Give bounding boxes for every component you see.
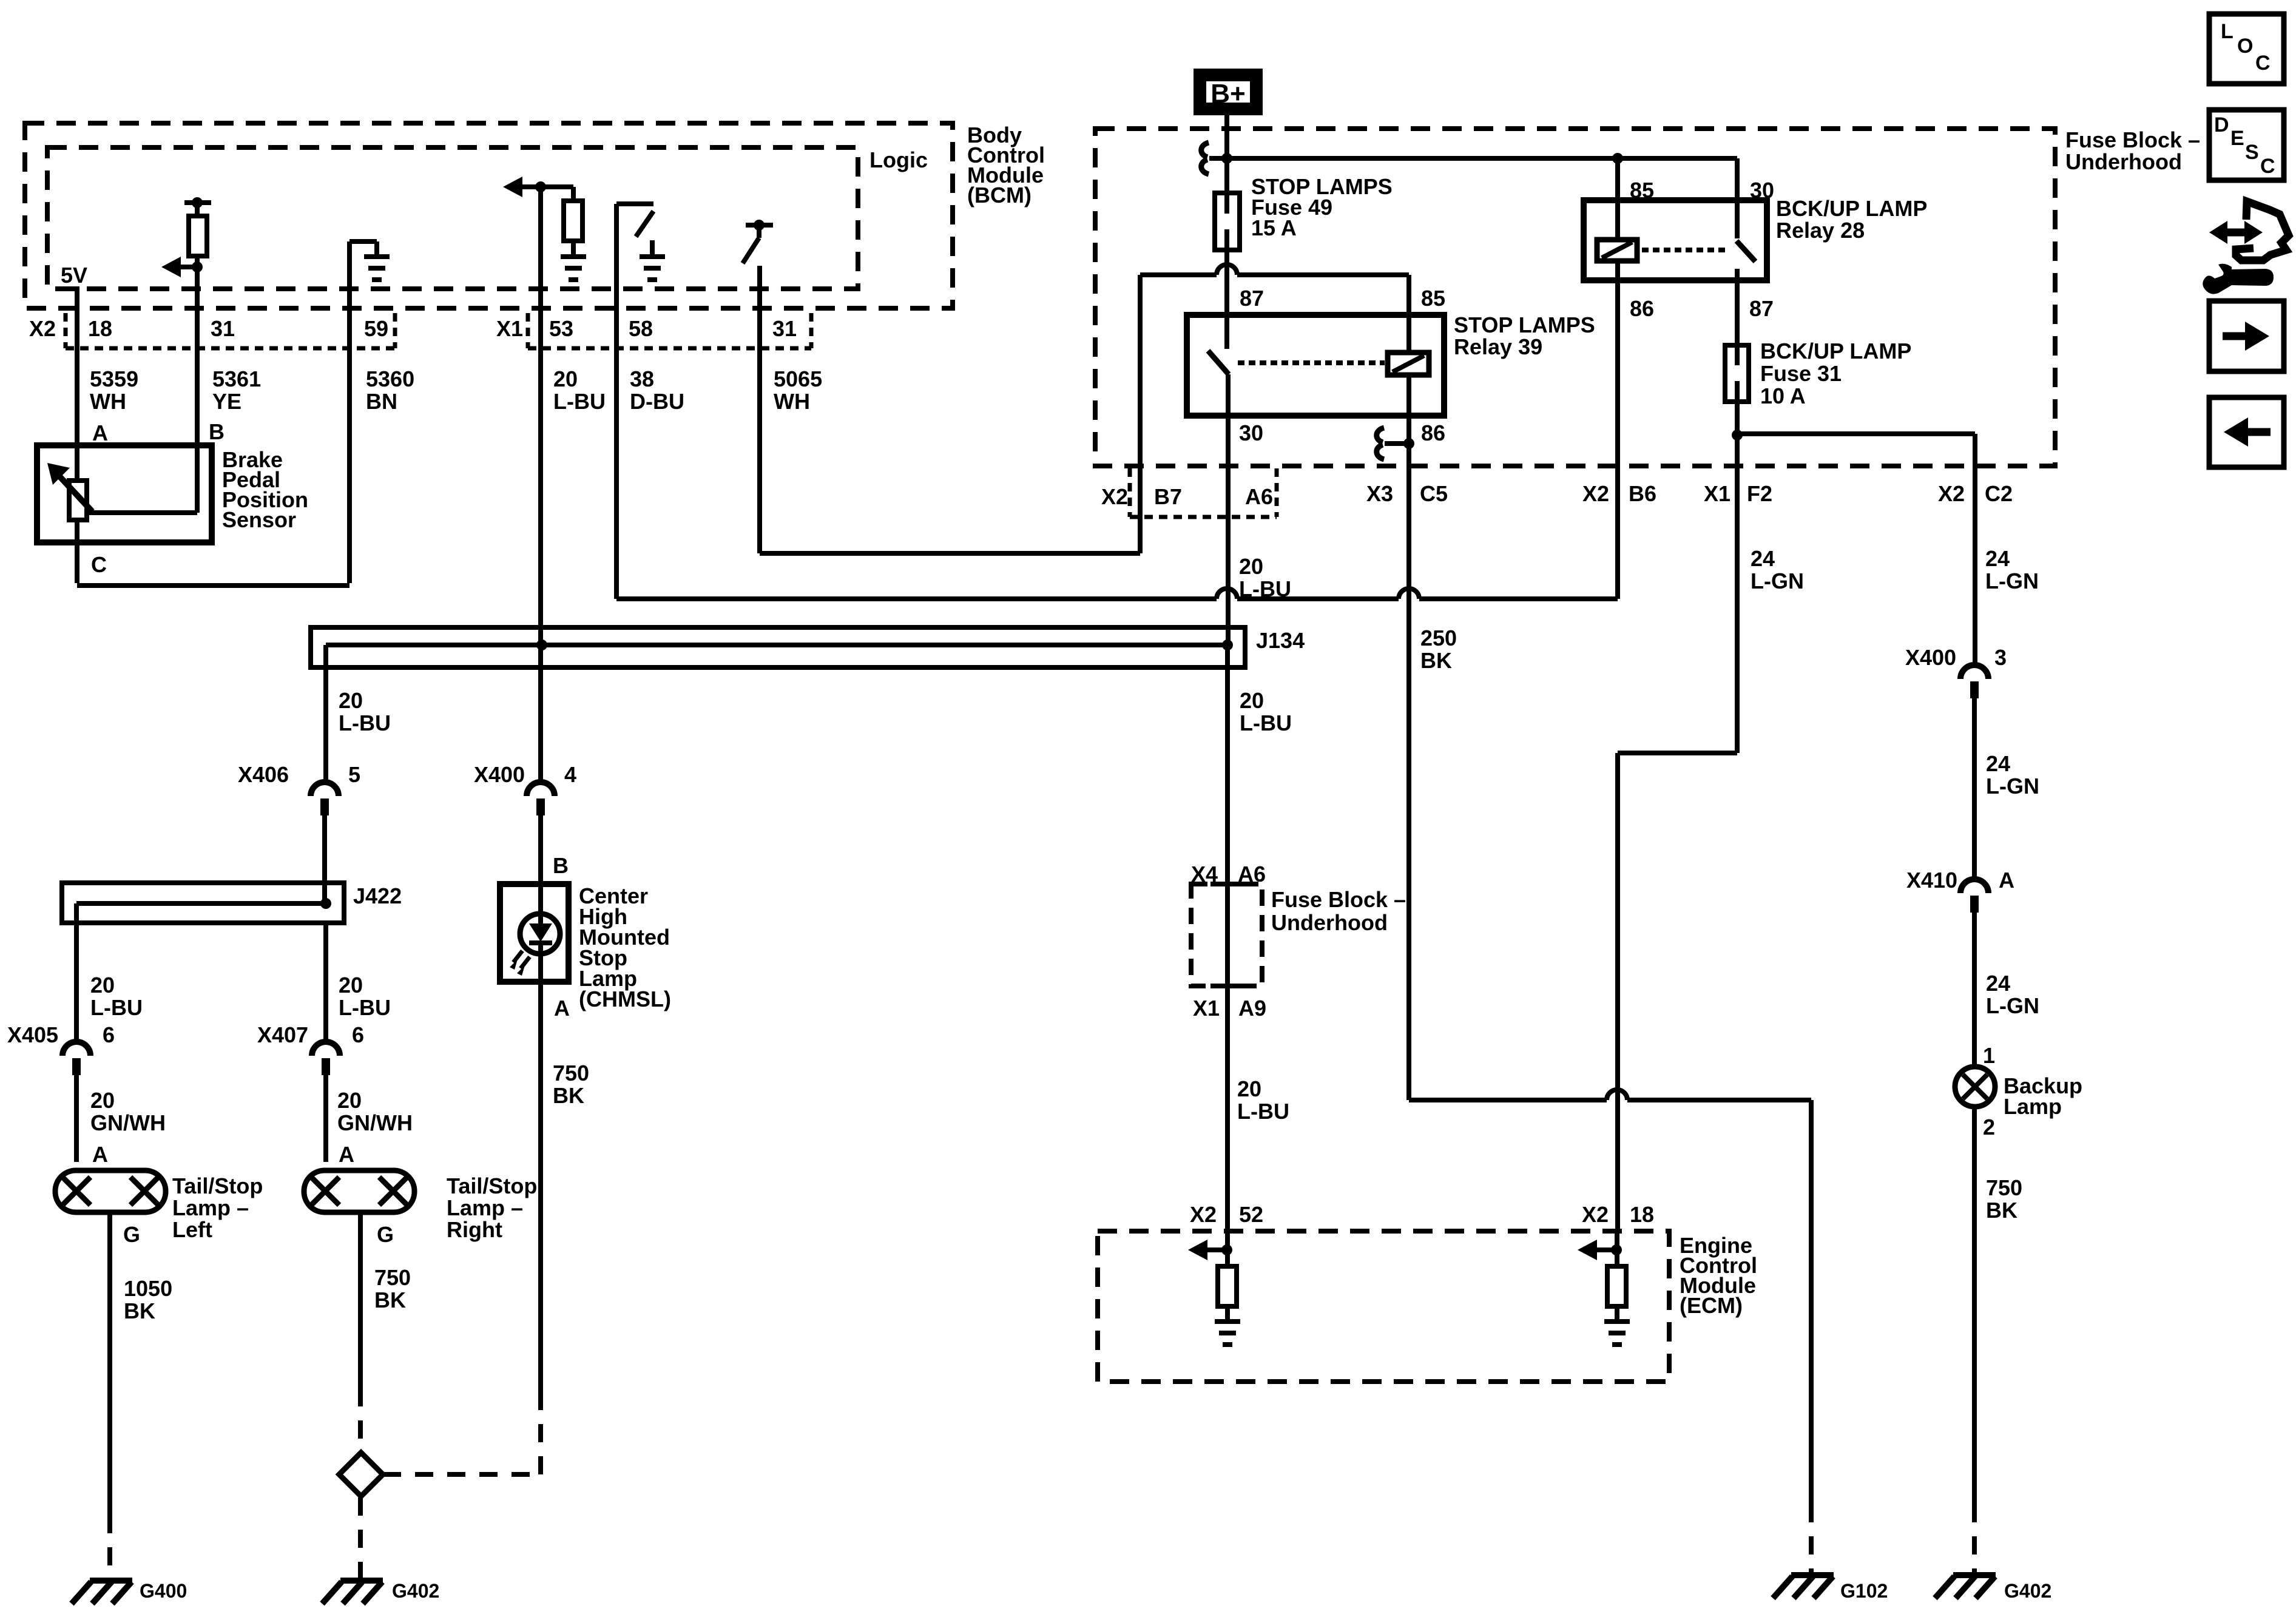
wire 1050 BK [107, 1212, 112, 1515]
wire 5V to sensor pin A [75, 286, 79, 481]
relay BCK/UP LAMP Relay 28 box [1584, 200, 1767, 280]
svg-text:A: A [554, 996, 570, 1021]
wire dashed splice to CHMSL return [383, 1472, 541, 1477]
svg-text:58: 58 [629, 316, 653, 341]
junction ECM pin 18 [1611, 1244, 1622, 1255]
svg-text:A6: A6 [1245, 484, 1273, 509]
wire coil feed to relay 39 pin 85 [1140, 272, 1217, 277]
junction on J134 [536, 640, 547, 650]
wrench [2203, 264, 2274, 294]
svg-text:Fuse Block –Underhood: Fuse Block –Underhood [1271, 887, 1406, 935]
internal resistor (BCM pin 53 branch) [564, 201, 582, 241]
ground symbol BCM pin 59 [364, 257, 390, 280]
wire 5065 WH up (pin B7) [1138, 275, 1143, 553]
tick X4-A6 [1210, 882, 1243, 886]
svg-text:A9: A9 [1238, 996, 1266, 1021]
ground G402 (left) [322, 1581, 383, 1604]
svg-text:Logic: Logic [869, 147, 928, 172]
svg-text:E: E [2230, 127, 2244, 150]
component box Brake Pedal Position Sensor [37, 445, 212, 542]
svg-text:G: G [377, 1222, 394, 1247]
icon hand with wrench [2236, 201, 2289, 260]
connector X400 pin 4 [527, 782, 555, 796]
wire B+ to Fuse 49 [1224, 115, 1229, 193]
icon box left-arrow [2209, 397, 2284, 467]
svg-text:X1: X1 [1193, 996, 1220, 1021]
svg-text:1: 1 [1983, 1043, 1995, 1068]
wire relay 28 pin 30 [1735, 158, 1740, 238]
svg-text:C: C [2260, 155, 2275, 178]
junction B+ feed [1221, 153, 1232, 164]
wire 250 BK to G102 [1409, 1098, 1607, 1102]
connector X407 pin 6 [312, 1042, 340, 1056]
wire 24 L-GN down [1735, 402, 1740, 753]
svg-text:X407: X407 [257, 1022, 308, 1047]
LED symbol CHMSL [520, 914, 560, 954]
filament X right-lamp 1 [311, 1177, 339, 1205]
svg-text:X2: X2 [1190, 1202, 1217, 1227]
arrow ECM pin 18 input [1578, 1240, 1597, 1260]
relay 39 actuation dashed line [1238, 360, 1385, 365]
svg-text:X2: X2 [29, 316, 56, 341]
wire sensor pin C return [75, 542, 79, 583]
connector bracket X2 B7 A6 (fuse block) [1128, 468, 1132, 517]
wire 20 L-BU to ECM X2-52 [1225, 986, 1230, 1231]
tick X1-A9 [1210, 984, 1243, 988]
ground symbol BCM pin 58 [640, 257, 665, 280]
connector X405 pin 6 [62, 1042, 90, 1056]
lamp Tail/Stop Lamp - Left [55, 1170, 166, 1212]
svg-text:F2: F2 [1747, 481, 1772, 506]
svg-text:750BK: 750BK [1986, 1175, 2022, 1223]
svg-text:2: 2 [1983, 1115, 1995, 1139]
wire 20 L-BU to J422 [322, 815, 327, 903]
svg-text:750BK: 750BK [553, 1061, 589, 1108]
svg-text:18: 18 [1630, 1202, 1654, 1227]
ground G400 [72, 1581, 132, 1604]
svg-text:X1: X1 [496, 316, 523, 341]
svg-text:B: B [553, 853, 569, 878]
svg-text:G400: G400 [140, 1580, 187, 1602]
wire dashed CHMSL return [538, 1397, 543, 1474]
svg-text:6: 6 [352, 1022, 364, 1047]
wire 5361 YE to sensor pin B [195, 289, 200, 513]
svg-text:B7: B7 [1154, 484, 1182, 509]
wire 24 L-GN to X400-3 [1973, 434, 1977, 666]
filament X left-lamp 2 [130, 1177, 158, 1205]
relay STOP LAMPS Relay 39 box [1187, 315, 1444, 416]
svg-text:D: D [2214, 113, 2229, 137]
svg-text:L: L [2221, 20, 2234, 43]
wire 20 GN/WH left [74, 1075, 79, 1162]
svg-text:A: A [339, 1142, 354, 1167]
splice pack J422 box [62, 883, 344, 923]
svg-text:31: 31 [211, 316, 235, 341]
svg-text:A: A [92, 1142, 108, 1167]
svg-text:G102: G102 [1840, 1580, 1888, 1602]
wire relay 28 pin 87 to Fuse 31 [1735, 280, 1740, 345]
wire dashed to G400 [107, 1515, 112, 1578]
module box Body Control Module (BCM) [25, 123, 953, 308]
splice pack J134 box [311, 627, 1245, 667]
wire J422 right drop [323, 923, 328, 1042]
connector X406 pin 5 [311, 782, 339, 796]
svg-text:X2: X2 [1582, 481, 1609, 506]
svg-text:30: 30 [1239, 420, 1263, 445]
svg-text:X1: X1 [1704, 481, 1730, 506]
pass-through box Fuse Block - Underhood (X4/A6-X1/A9) [1191, 884, 1262, 986]
internal resistor ECM pin 18 [1607, 1266, 1626, 1306]
svg-text:X405: X405 [7, 1022, 58, 1047]
svg-text:X3: X3 [1366, 481, 1393, 506]
ground G402 (right) [1935, 1575, 1996, 1598]
connector X1 (BCM) dotted bracket [526, 313, 530, 348]
wire relay 39 pin 85 [1406, 275, 1411, 353]
relay 28 switch arm [1737, 241, 1755, 262]
svg-text:3: 3 [1994, 645, 2007, 670]
junction on J422 [320, 898, 331, 909]
wire 38 D-BU down [614, 308, 619, 599]
filament X backup lamp [1963, 1075, 1987, 1099]
wire 20 GN/WH right [323, 1075, 328, 1162]
lamp Center High Mounted Stop Lamp (CHMSL) [500, 884, 569, 982]
internal pull-up resistor (BCM pin 31 branch) [192, 197, 203, 208]
svg-text:J134: J134 [1256, 628, 1305, 653]
ground symbol ECM pin 18 [1604, 1322, 1630, 1345]
wire 750 BK CHMSL [538, 982, 543, 1397]
wire 24 L-GN jog left [1618, 751, 1737, 755]
arrow ECM pin 52 input [1188, 1240, 1207, 1260]
connector X2 (BCM) dotted bracket [64, 313, 68, 348]
clip symbol at relay 39 pin 86 [1377, 428, 1384, 459]
wire relay 39 pin 86 [1406, 375, 1411, 444]
arrow BCM wiper sense [161, 257, 181, 277]
wire 38 D-BU across [616, 596, 1217, 601]
inner box Logic [47, 147, 858, 289]
wire to G102 [1809, 1100, 1814, 1504]
wire Fuse 49 to Relay 39 pin 87 [1224, 250, 1229, 349]
svg-text:86: 86 [1630, 296, 1654, 321]
arrow BCM CHMSL driver [503, 177, 522, 197]
wire relay 28 pin 85 [1615, 158, 1620, 240]
bus bar J422 [76, 901, 326, 906]
wire dashed to splice [358, 1388, 363, 1451]
svg-text:G: G [123, 1222, 140, 1247]
connector X410 pin A [1960, 879, 1988, 893]
splice diamond S-connection [339, 1453, 383, 1496]
svg-text:X410: X410 [1906, 868, 1957, 893]
svg-text:750BK: 750BK [374, 1265, 411, 1312]
svg-text:18: 18 [88, 316, 112, 341]
wire 24 L-GN to backup lamp [1972, 913, 1977, 1067]
svg-text:G402: G402 [2004, 1580, 2051, 1602]
connector X400 pin 3 [1960, 665, 1988, 679]
svg-text:53: 53 [549, 316, 573, 341]
filament X right-lamp 2 [379, 1177, 407, 1205]
svg-text:30: 30 [1750, 178, 1774, 203]
internal resistor ECM pin 52 [1218, 1266, 1237, 1306]
icon box LOC [2209, 14, 2284, 84]
power feed B+ [1194, 69, 1263, 115]
wire relay 39 pin 30 stub [1226, 374, 1231, 416]
svg-text:C2: C2 [1985, 481, 2013, 506]
wire dashed splice to G402 [358, 1497, 363, 1578]
svg-text:X2: X2 [1938, 481, 1965, 506]
fuse STOP LAMPS Fuse 49 15 A [1215, 193, 1240, 250]
svg-text:4: 4 [564, 762, 576, 787]
junction relay 39 pin 86 [1403, 438, 1414, 449]
svg-text:O: O [2237, 35, 2253, 58]
svg-text:6: 6 [103, 1022, 115, 1047]
filament X left-lamp 1 [62, 1177, 90, 1205]
wire 20 L-BU J134 to X4-A6 [1225, 645, 1230, 884]
svg-text:A: A [1999, 868, 2014, 893]
junction on J134 right [1222, 640, 1233, 650]
svg-text:C5: C5 [1420, 481, 1448, 506]
ground symbol ECM pin 52 [1215, 1322, 1240, 1345]
bus bar J134 [326, 643, 1227, 647]
junction fuse 31 output [1732, 430, 1743, 441]
internal switch (BCM pin 58 branch) [614, 204, 619, 308]
svg-text:G402: G402 [392, 1580, 439, 1602]
svg-text:X400: X400 [474, 762, 525, 787]
wire 24 L-GN to ECM X2-18 [1615, 753, 1620, 1231]
wire 20 L-BU relay 39 pin 30 to J134 [1226, 416, 1231, 645]
svg-text:B6: B6 [1629, 481, 1656, 506]
module box Engine Control Module (ECM) [1098, 1231, 1669, 1382]
svg-text:87: 87 [1749, 296, 1774, 321]
lamp Tail/Stop Lamp - Right [304, 1170, 414, 1212]
wire 20 L-BU BCM 53 down [538, 190, 543, 645]
module box Fuse Block - Underhood [1095, 129, 2055, 466]
svg-text:X2: X2 [1101, 484, 1128, 509]
svg-text:5: 5 [348, 762, 360, 787]
wire 5065 WH down [757, 266, 762, 553]
wire 5065 WH right [760, 551, 1140, 556]
internal ground (BCM pin 59 branch) [347, 241, 352, 308]
lamp Backup Lamp [1955, 1067, 1995, 1107]
svg-text:5V: 5V [61, 263, 87, 288]
wire 750 BK backup lamp [1972, 1107, 1977, 1504]
svg-text:X406: X406 [238, 762, 289, 787]
svg-text:85: 85 [1630, 178, 1654, 203]
relay 28 actuation dashed line [1642, 248, 1728, 252]
svg-text:X2: X2 [1582, 1202, 1609, 1227]
node BCM pin 53 branch [535, 181, 546, 192]
wire 750 BK right lamp [358, 1212, 363, 1388]
fuse BCK/UP LAMP Fuse 31 10 A [1725, 345, 1749, 402]
svg-text:C: C [2255, 52, 2271, 75]
relay 39 switch arm [1208, 351, 1229, 374]
wire relay 28 pin 86 [1615, 280, 1620, 599]
icon box right-arrow [2209, 301, 2284, 371]
wire J134 left drop 20 L-BU [323, 645, 328, 781]
svg-text:X400: X400 [1905, 645, 1956, 670]
wire 250 BK down [1406, 444, 1411, 1096]
LED emission arrows [513, 951, 530, 968]
svg-text:C: C [91, 552, 107, 577]
svg-text:B+: B+ [1210, 79, 1245, 109]
ground G102 [1773, 1575, 1834, 1598]
potentiometer arrow [60, 477, 92, 511]
clip symbol at B+ junction [1201, 143, 1209, 174]
svg-text:52: 52 [1239, 1202, 1263, 1227]
svg-text:J422: J422 [353, 883, 402, 908]
wire 24 L-GN mid [1972, 698, 1977, 880]
svg-text:S: S [2245, 141, 2259, 164]
svg-text:86: 86 [1421, 420, 1445, 445]
icon box DESC [2209, 110, 2284, 180]
svg-text:A: A [92, 420, 108, 445]
svg-text:Fuse Block –Underhood: Fuse Block –Underhood [2065, 127, 2200, 174]
relay 28 coil [1597, 240, 1637, 261]
wire 20 L-BU to CHMSL [538, 815, 543, 884]
svg-text:31: 31 [772, 316, 797, 341]
svg-text:B: B [209, 419, 225, 444]
svg-text:85: 85 [1421, 286, 1445, 311]
svg-text:87: 87 [1240, 286, 1264, 311]
wire B+ feed to Relay 28 [1227, 156, 1737, 161]
ground symbol BCM pin 53 [561, 257, 586, 280]
potentiometer inside sensor [69, 481, 87, 520]
wire J422 left drop [74, 903, 79, 1042]
internal switch driver (BCM X1 pin 31) [754, 220, 765, 231]
wire branch to backup lamp [1737, 431, 1975, 436]
svg-text:59: 59 [364, 316, 388, 341]
junction ECM pin 52 [1221, 1244, 1232, 1255]
svg-text:250BK: 250BK [1420, 626, 1457, 673]
junction feed relay 28 pin 85 [1612, 153, 1623, 164]
relay 39 coil [1388, 353, 1429, 375]
wire dashed to G102 [1809, 1504, 1814, 1573]
wire dashed to G402 [1972, 1504, 1977, 1573]
